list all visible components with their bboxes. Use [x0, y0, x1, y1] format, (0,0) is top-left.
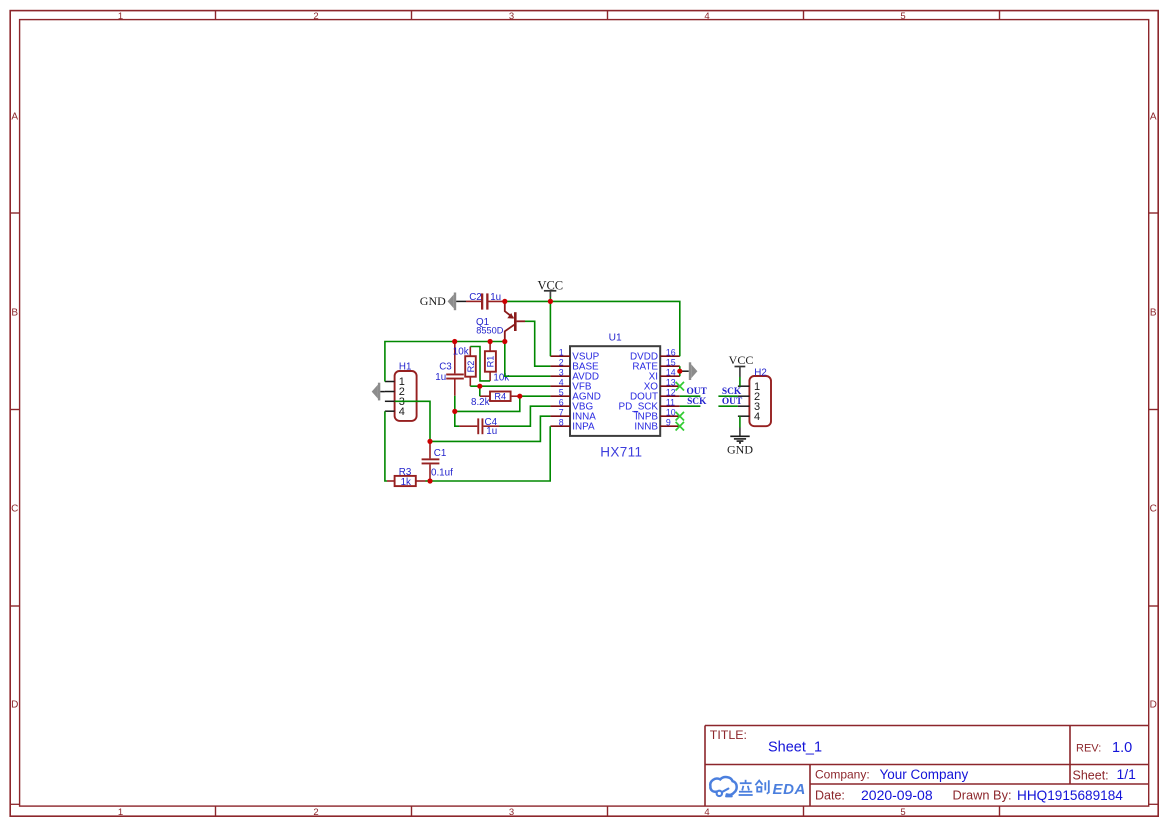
svg-text:12: 12 [666, 387, 676, 397]
svg-text:HX711: HX711 [600, 445, 642, 460]
svg-text:5: 5 [900, 11, 905, 22]
junction C2/Q1 emitter [502, 299, 507, 304]
svg-text:8550D: 8550D [476, 326, 503, 336]
wire INPA pin 8 down to bottom rail [430, 426, 550, 481]
label HX711 [600, 445, 642, 460]
wire R3 right to C1 bottom node [426, 480, 431, 482]
svg-text:1/1: 1/1 [1117, 766, 1137, 782]
ground flag at H1 pin 2 [372, 383, 385, 401]
svg-text:C1: C1 [434, 448, 447, 459]
svg-text:4: 4 [704, 807, 709, 818]
svg-text:INNB: INNB [634, 422, 658, 433]
junction C3 top [452, 339, 457, 344]
svg-text:Drawn By:: Drawn By: [953, 788, 1012, 803]
label C2 [469, 292, 482, 303]
pin 9 (INNB) of U1 [634, 417, 679, 432]
wire C4 right to VBG pin 6 [500, 406, 551, 426]
wire H1 pin4 down to R3 left [385, 411, 387, 481]
svg-text:1u: 1u [486, 426, 497, 437]
svg-text:2: 2 [313, 11, 318, 22]
pin 14 (XI) of U1 [649, 367, 680, 382]
svg-text:HHQ1915689184: HHQ1915689184 [1017, 788, 1123, 803]
pin 15 (RATE) of U1 [632, 357, 679, 372]
ground symbol below H2 [727, 428, 753, 457]
pin 2 (BASE) of U1 [550, 357, 599, 372]
svg-text:R1: R1 [486, 356, 496, 368]
pin 12 (DOUT) of U1 [630, 387, 680, 402]
power flag VCC at H2 pin 1 [729, 353, 754, 377]
op-amp U1 HX711 body [570, 346, 660, 436]
label R3 [399, 467, 412, 478]
svg-text:GND: GND [420, 294, 446, 308]
svg-text:5: 5 [559, 387, 564, 397]
wire H2 pin1 to VCC [739, 377, 741, 386]
wire R4 node down-left to C3 bottom [455, 396, 520, 411]
label U1 [609, 333, 622, 344]
wire node to C4 left [455, 411, 460, 426]
pin 11 (PD_SCK) of U1 [618, 397, 679, 412]
wire VCC to VSUP pin 1 [549, 301, 551, 356]
value 1u (C3) [435, 372, 446, 383]
svg-text:Your Company: Your Company [880, 767, 969, 782]
capacitor C3 [446, 342, 464, 396]
svg-text:14: 14 [666, 367, 676, 377]
svg-text:C: C [1150, 504, 1157, 515]
svg-text:9: 9 [666, 417, 671, 427]
junction C1 top [427, 439, 432, 444]
svg-text:U1: U1 [609, 333, 622, 344]
pin 7 (INNA) of U1 [550, 407, 596, 422]
wire OUT at H2 pin 3 [718, 405, 738, 407]
junction R1 top [488, 339, 493, 344]
value 1u (C2) [490, 292, 501, 303]
svg-text:10: 10 [666, 407, 676, 417]
no-connect X at pin 10 [676, 412, 684, 421]
junction VCC stem [548, 299, 553, 304]
svg-text:5: 5 [900, 807, 905, 818]
svg-text:3: 3 [509, 807, 514, 818]
label H2 [754, 367, 767, 378]
svg-text:D: D [11, 700, 18, 711]
svg-text:1: 1 [559, 347, 564, 357]
junction C3/C4 [452, 409, 457, 414]
svg-text:B: B [11, 308, 18, 319]
wire VFB node down to R4 left [479, 386, 481, 396]
label H1 [399, 361, 412, 372]
svg-text:Sheet_1: Sheet_1 [768, 740, 822, 756]
wire SCK at H2 pin 2 [718, 395, 738, 397]
value 1u (C4) [486, 426, 497, 437]
wire Q1 base to BASE pin 2 [525, 321, 550, 366]
wire R4 right to AGND pin 5 [520, 395, 551, 397]
pin 3 (AVDD) of U1 [550, 367, 599, 382]
wire C3 bottom segment [454, 396, 456, 412]
pin 10 (INPB) of U1 [634, 407, 680, 422]
svg-text:1: 1 [118, 11, 123, 22]
junction R4 right [517, 394, 522, 399]
svg-text:H1: H1 [399, 361, 412, 372]
svg-text:1u: 1u [435, 372, 446, 383]
transistor Q1 (PNP 8550D) [505, 301, 525, 341]
pin 16 (DVDD) of U1 [630, 347, 680, 362]
junction RATE-XI gnd [677, 369, 682, 374]
svg-text:REV:: REV: [1076, 743, 1101, 755]
capacitor C4 [459, 418, 499, 434]
junction C1 bottom/R3 [427, 478, 432, 483]
wire top rail H1 pin1 to Q1 collector [385, 342, 505, 382]
svg-text:Sheet:: Sheet: [1073, 769, 1109, 783]
svg-text:C2: C2 [469, 292, 482, 303]
label C1 [434, 448, 447, 459]
pin 8 (INPA) of U1 [550, 417, 595, 432]
value 8.2k (R4) [471, 397, 490, 408]
svg-text:4: 4 [704, 11, 709, 22]
svg-text:A: A [1150, 112, 1157, 123]
net label SCK at U1 pin 11 [687, 397, 707, 407]
svg-text:4: 4 [399, 406, 405, 418]
svg-text:C3: C3 [439, 361, 452, 372]
wire OUT at U1 pin 12 [680, 395, 701, 397]
svg-text:8.2k: 8.2k [471, 397, 490, 408]
svg-text:3: 3 [559, 367, 564, 377]
junction VFB/R4 [477, 384, 482, 389]
svg-text:7: 7 [559, 407, 564, 417]
svg-text:2020-09-08: 2020-09-08 [861, 787, 933, 803]
wire R2 top to R1 bottom [470, 347, 490, 381]
svg-text:EDA: EDA [773, 781, 806, 798]
wire SCK at U1 pin 11 [680, 405, 701, 407]
svg-text:A: A [11, 112, 18, 123]
wire collector node to AVDD pin 3 [505, 342, 551, 377]
resistor R1 [485, 342, 496, 381]
value 1k (R3) [401, 477, 411, 488]
svg-text:2: 2 [313, 807, 318, 818]
label C3 [439, 361, 452, 372]
connector H2 [738, 376, 771, 426]
label C4 [485, 417, 498, 428]
svg-text:C: C [11, 504, 18, 515]
no-connect X at pin 9 [676, 422, 684, 431]
pin 6 (VBG) of U1 [550, 397, 593, 412]
wire H1 pin3 to C1 top node [395, 401, 430, 441]
svg-text:TITLE:: TITLE: [710, 728, 747, 742]
svg-text:R4: R4 [494, 392, 506, 402]
ground flag at C2 [420, 293, 466, 311]
pin 13 (XO) of U1 [644, 377, 680, 392]
svg-text:INPA: INPA [572, 422, 595, 433]
svg-text:VCC: VCC [729, 353, 754, 367]
wire VCC rail (C2 to DVDD pin 16) [505, 301, 680, 356]
connector H1 [385, 371, 417, 421]
svg-text:D: D [1150, 700, 1157, 711]
svg-text:1u: 1u [490, 292, 501, 303]
svg-text:13: 13 [666, 377, 676, 387]
pin 5 (AGND) of U1 [550, 387, 600, 402]
svg-text:1k: 1k [401, 477, 411, 488]
svg-text:R2: R2 [466, 361, 476, 373]
pin 1 (VSUP) of U1 [550, 347, 599, 362]
wire VFB row (R2 bottom to pin 4) [470, 385, 550, 387]
junction Q1 collector [502, 339, 507, 344]
svg-text:15: 15 [666, 357, 676, 367]
svg-text:H2: H2 [754, 367, 767, 378]
svg-text:10k: 10k [453, 347, 469, 358]
no-connect X at pin 13 [676, 382, 684, 391]
wire tie RATE pin15 to XI pin14 [679, 366, 681, 376]
value 0.1uf (C1) [431, 468, 453, 479]
label Q1 [476, 317, 489, 328]
svg-text:SCK: SCK [722, 387, 742, 397]
pin 4 (VFB) of U1 [550, 377, 592, 392]
svg-text:B: B [1150, 308, 1157, 319]
wire C1 node to INNA pin 7 [430, 416, 550, 441]
svg-text:6: 6 [559, 397, 564, 407]
ground flag at pins 14/15 [680, 362, 698, 380]
net label OUT at U1 pin 12 [687, 387, 708, 397]
svg-text:0.1uf: 0.1uf [431, 468, 453, 479]
svg-text:16: 16 [666, 347, 676, 357]
value 10k (R2) [453, 347, 469, 358]
capacitor C2 [466, 293, 505, 309]
svg-text:Date:: Date: [815, 789, 845, 803]
svg-text:11: 11 [666, 397, 675, 407]
svg-text:2: 2 [559, 357, 564, 367]
capacitor C1 [422, 441, 440, 481]
svg-text:4: 4 [559, 377, 564, 387]
svg-text:1.0: 1.0 [1112, 740, 1132, 756]
net label OUT at H2 pin 3 [722, 397, 743, 407]
value 8550D (Q1) [476, 326, 503, 336]
svg-text:8: 8 [559, 417, 564, 427]
net label SCK at H2 pin 2 [722, 387, 742, 397]
resistor R2 [465, 347, 476, 387]
svg-text:3: 3 [509, 11, 514, 22]
svg-text:GND: GND [727, 442, 753, 456]
svg-text:4: 4 [754, 411, 760, 423]
svg-text:Company:: Company: [815, 768, 870, 782]
resistor R3 [387, 476, 426, 486]
power flag VCC (top) [537, 278, 563, 301]
value 10k (R1) [493, 373, 509, 384]
resistor R4 [480, 392, 520, 402]
svg-text:10k: 10k [493, 373, 509, 384]
wire H2 pin4 to GND [739, 416, 741, 427]
svg-text:1: 1 [118, 807, 123, 818]
